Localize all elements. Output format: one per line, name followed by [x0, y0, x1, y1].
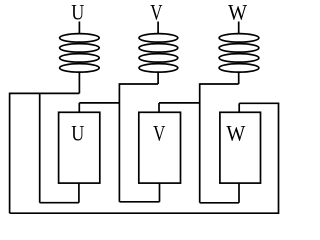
wire: coil L1 bottom stub [78, 73, 80, 94]
svg-text:V: V [153, 121, 165, 146]
wire: box U bottom lead up [78, 183, 80, 203]
wire: horizontal coil L3 bottom to vertical riser [200, 83, 239, 85]
svg-text:W: W [226, 121, 245, 146]
wire: box V loop bottom horizontal [119, 201, 159, 203]
wire: box W bottom lead up [238, 183, 240, 203]
wire: box U loop left vertical [39, 93, 41, 203]
wire: coil L2 bottom stub [157, 73, 159, 85]
wire: terminal V to coil L2 [157, 22, 159, 34]
svg-text:U: U [71, 0, 84, 25]
svg-text:U: U [71, 121, 84, 146]
wire: left outer vertical [9, 93, 11, 214]
wire: phase W vertical riser [199, 83, 201, 203]
wire: terminal W to coil L3 [238, 22, 240, 34]
wire: horizontal from coil L1 bottom to left bus [10, 92, 80, 94]
wire: bottom bus [10, 212, 279, 214]
svg-text:W: W [228, 0, 247, 25]
wire: phase V vertical riser [118, 83, 120, 202]
coil L3 (phase W winding) [219, 34, 259, 73]
wire: box W loop bottom horizontal [200, 202, 239, 204]
wire: branch to box U top drop [79, 102, 119, 104]
box W (phase W rotor winding) [220, 112, 261, 183]
wire: branch to box V top drop [159, 102, 200, 104]
coil L2 (phase V winding) [139, 34, 178, 73]
wire: drop into box U top [78, 103, 80, 112]
wire: right outer vertical [278, 103, 280, 214]
wire: drop into box W top [238, 103, 240, 112]
wire: horizontal coil L2 bottom to vertical riser [119, 83, 158, 85]
svg-text:V: V [150, 0, 162, 25]
box U (phase U rotor winding) [59, 112, 100, 183]
wire: coil L3 bottom stub [238, 73, 240, 85]
wire: box U loop bottom horizontal [40, 202, 79, 204]
wire: horizontal right bus to box W top drop [239, 102, 279, 104]
wire: box V bottom lead up [159, 183, 161, 202]
wire: drop into box V top [158, 103, 160, 112]
wire: terminal U to coil L1 [78, 22, 80, 34]
coil L1 (phase U winding) [60, 34, 100, 73]
box V (phase V rotor winding) [139, 112, 181, 183]
